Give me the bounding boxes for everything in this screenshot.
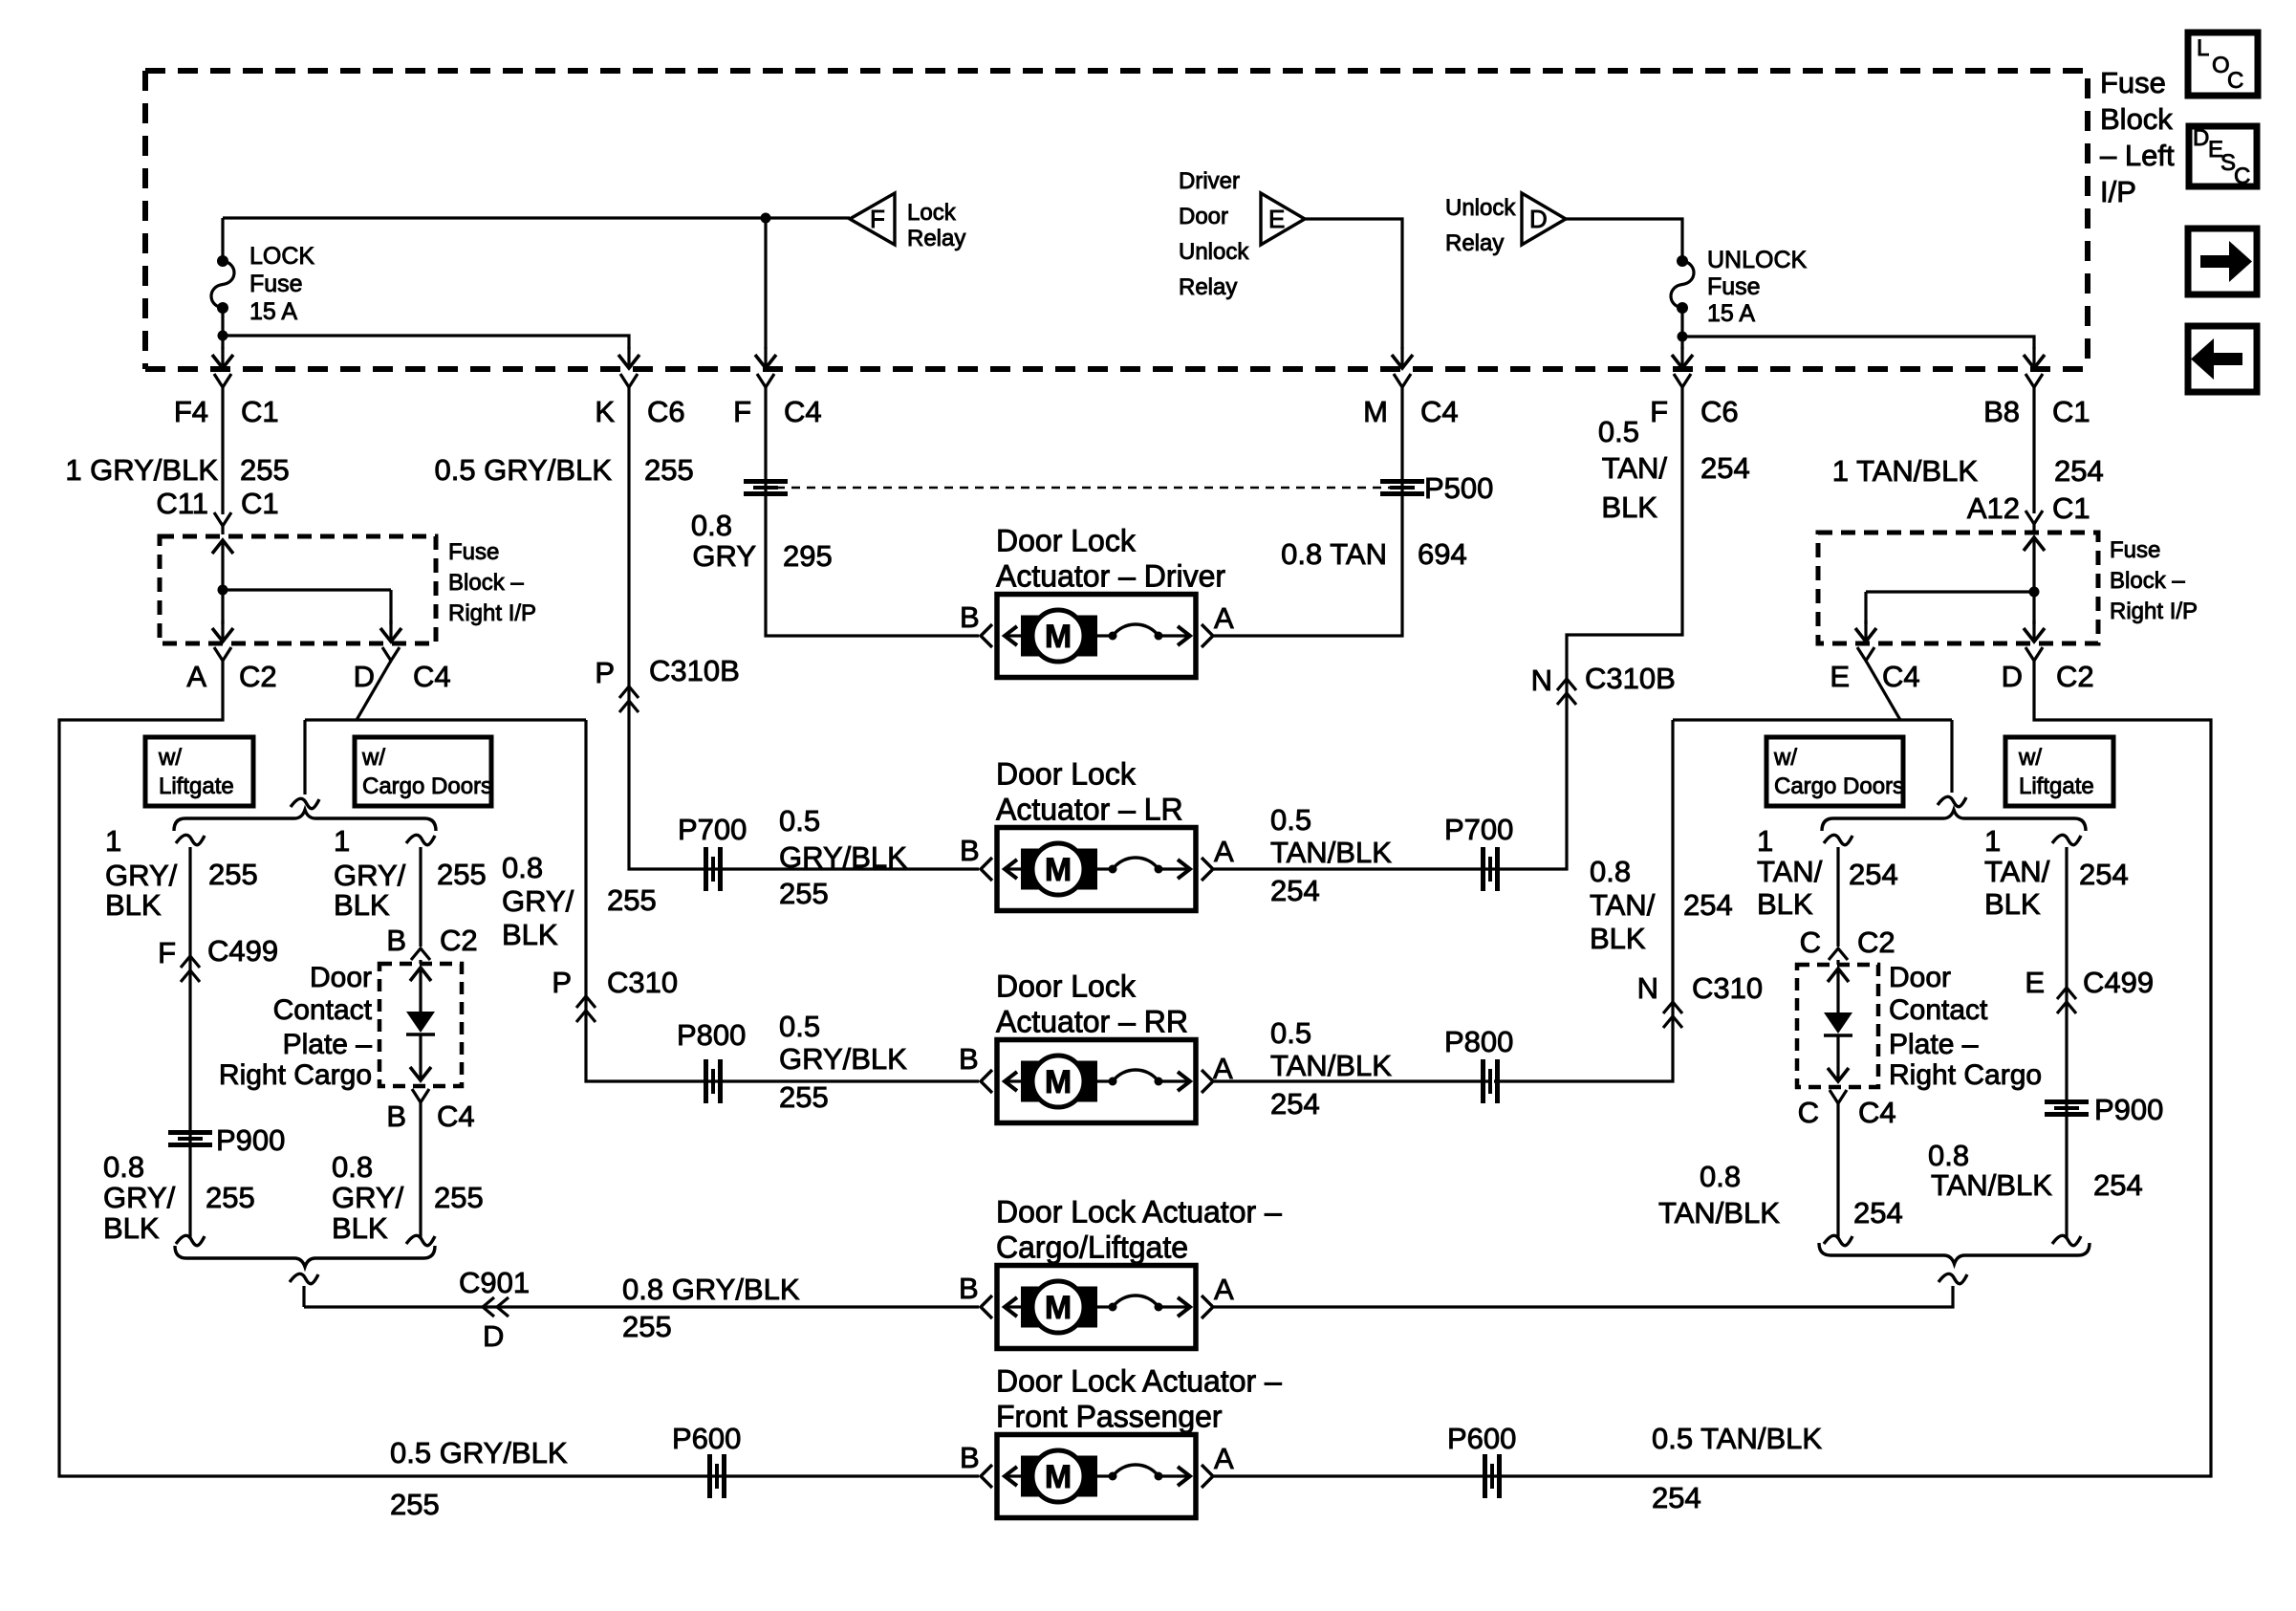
svg-text:Fuse: Fuse [448,539,499,565]
label 0.8 GRY/BLK 255 (left) [103,1150,255,1245]
svg-text:Right Cargo: Right Cargo [219,1059,372,1091]
svg-text:w/: w/ [158,745,182,771]
connector F C6 [1650,374,1739,428]
svg-text:GRY/BLK: GRY/BLK [779,1042,907,1076]
svg-text:GRY/: GRY/ [103,1181,176,1214]
svg-text:0.8: 0.8 [1700,1160,1741,1193]
svg-text:GRY/: GRY/ [502,884,574,918]
svg-text:Driver: Driver [1179,168,1240,194]
connector B8 C1 [1983,374,2090,428]
svg-text:Actuator – Driver: Actuator – Driver [996,559,1225,594]
svg-text:C310: C310 [607,966,678,999]
connector F4 C1 [174,374,279,428]
connector B C4 [386,1089,474,1133]
svg-text:0.5: 0.5 [1270,803,1311,837]
svg-text:C901: C901 [459,1266,530,1299]
svg-text:0.8: 0.8 [103,1150,144,1184]
break squiggle above left brace [291,720,319,809]
svg-text:Fuse: Fuse [2100,66,2166,99]
wire to cargo/liftgate actuator B with C901 [304,1305,979,1308]
svg-text:254: 254 [2093,1168,2143,1202]
wire P800 right to RR A [1214,1079,1488,1082]
svg-text:0.8: 0.8 [1590,855,1631,888]
svg-text:0.5 TAN/BLK: 0.5 TAN/BLK [1652,1422,1822,1455]
svg-text:254: 254 [2054,454,2104,488]
wire: fuse branch to K pin [223,336,639,368]
break squiggle above right brace [1938,720,1966,807]
svg-text:Lock: Lock [907,200,957,226]
door lock actuator LR [981,757,1213,911]
svg-text:254: 254 [2079,858,2129,891]
svg-text:295: 295 [783,539,833,573]
svg-text:Right Cargo: Right Cargo [1889,1059,2042,1091]
svg-text:P900: P900 [2094,1093,2163,1126]
svg-text:Fuse: Fuse [2110,537,2160,563]
junction below UNLOCK fuse [1678,332,1688,342]
fuse block right I/P (left) label [448,539,536,626]
svg-text:C499: C499 [207,934,278,968]
wire E C4 slant [1866,661,1900,720]
svg-text:N: N [1531,664,1552,697]
svg-text:C1: C1 [2052,491,2090,525]
door contact plate (left) internals [406,960,435,1080]
label 0.5 TAN/BLK 254 (F C6) [1598,415,1750,524]
wire E branch horizontal [1673,718,1952,721]
label 0.8 TAN/BLK 254 (liftgate right) [1928,1139,2143,1202]
svg-text:Cargo Doors: Cargo Doors [362,773,492,799]
svg-text:TAN/BLK: TAN/BLK [1270,1049,1392,1082]
svg-text:B: B [960,600,980,634]
connector C11 C1 [156,487,278,526]
svg-text:Right I/P: Right I/P [448,600,536,626]
label 0.8 TAN 694 [1281,537,1467,571]
wire: fuse to F C6 pin [1672,337,1693,368]
right arrow nav box [2188,229,2257,294]
svg-text:TAN/BLK: TAN/BLK [1270,836,1392,869]
P500 dashed pair line [776,487,1391,490]
wire: lock relay down to F C4 [755,218,776,368]
svg-text:Fuse: Fuse [249,271,303,297]
fuse block right I/P (right) dashed outline [1818,533,2098,643]
unlock relay D triangle [1445,193,1566,256]
label 0.5 GRY/BLK 255 (FP B) [390,1436,568,1521]
svg-text:C2: C2 [440,924,478,957]
svg-text:GRY/: GRY/ [105,859,178,892]
wire P600 to FP B [719,1474,979,1477]
LOC reference box [2188,33,2258,96]
wire P700 to LR B [715,867,979,870]
label 1 TAN/BLK 254 (liftgate right) [1984,824,2129,921]
svg-text:D: D [354,660,375,693]
svg-text:C4: C4 [437,1099,475,1133]
pin A LR [1214,835,1234,868]
svg-text:1 TAN/BLK: 1 TAN/BLK [1832,454,1979,488]
wire cargo/liftgate A to right brace [1214,1274,1967,1307]
wire P800 to RR B [715,1079,979,1082]
svg-text:UNLOCK: UNLOCK [1707,247,1808,273]
svg-text:GRY/BLK: GRY/BLK [779,840,907,874]
svg-text:Door: Door [1179,204,1228,229]
door contact plate (left) label [219,962,373,1091]
svg-text:F: F [870,205,885,233]
label 0.8 TAN/BLK 254 (N C310B) [1590,855,1733,955]
door lock actuator cargo/liftgate [981,1195,1282,1349]
svg-text:B: B [386,924,406,957]
svg-text:Liftgate: Liftgate [2019,773,2094,799]
svg-text:P: P [552,966,572,999]
svg-text:0.5: 0.5 [1270,1016,1311,1050]
svg-text:P700: P700 [1444,813,1513,846]
break squiggle below left underbrace [290,1274,318,1307]
svg-text:P900: P900 [216,1123,285,1157]
svg-text:Door Lock Actuator –: Door Lock Actuator – [996,1195,1282,1230]
svg-text:Contact: Contact [1889,994,1988,1026]
svg-text:D: D [1529,205,1548,233]
svg-text:C: C [2227,68,2243,94]
svg-text:BLK: BLK [1984,887,2041,921]
svg-text:Block –: Block – [2110,568,2185,594]
svg-text:D: D [2002,660,2023,693]
svg-text:Block: Block [2100,102,2173,136]
wire driver A to M C4 [1214,387,1402,636]
svg-text:B: B [959,1272,979,1305]
svg-text:C310B: C310B [649,654,740,687]
svg-text:C4: C4 [1420,395,1459,428]
svg-text:255: 255 [437,858,487,891]
cargo doors branch wire (left) [406,835,435,947]
grommet P800 (left) [677,1018,746,1103]
door contact plate right cargo (left) dashed box [379,964,462,1086]
connector C901 D [459,1266,530,1353]
pin A front passenger [1214,1442,1234,1475]
connector M C4 [1363,374,1458,428]
svg-text:Right I/P: Right I/P [2110,599,2198,624]
connector P C310B [595,654,739,712]
svg-text:BLK: BLK [332,1211,388,1245]
svg-text:A: A [186,660,206,693]
svg-text:D: D [2193,125,2209,151]
svg-text:M: M [1363,395,1388,428]
svg-text:254: 254 [1700,451,1750,485]
svg-text:0.8 TAN: 0.8 TAN [1281,537,1387,571]
fuse block right I/P (left) internal wiring [212,526,401,642]
left option brace [174,810,436,831]
label 0.5 TAN/BLK 254 (FP A) [1652,1422,1822,1514]
door lock actuator front passenger [981,1364,1282,1518]
liftgate branch wire (right) [2052,835,2081,1245]
svg-text:B: B [386,1099,406,1133]
svg-text:P700: P700 [678,813,747,846]
label 255 (C310) [502,851,657,951]
svg-text:694: 694 [1418,537,1467,571]
svg-text:Plate –: Plate – [283,1029,373,1060]
svg-text:w/: w/ [2018,745,2042,771]
fuse block right I/P (left) dashed outline [160,536,436,643]
svg-text:– Left: – Left [2100,139,2175,172]
svg-text:B: B [960,834,980,867]
svg-text:C4: C4 [1882,660,1920,693]
svg-text:TAN/BLK: TAN/BLK [1658,1196,1780,1230]
fuse block right I/P (right) internal wiring [1855,524,2045,642]
svg-text:Block –: Block – [448,570,524,596]
svg-text:BLK: BLK [1590,922,1646,955]
grommet P900 (left) [168,1123,285,1157]
svg-text:255: 255 [240,453,290,487]
svg-text:1: 1 [1757,824,1773,858]
DESC reference box [2189,125,2257,189]
svg-text:M: M [1045,852,1072,888]
svg-text:P600: P600 [1447,1422,1516,1455]
door contact plate (right) internals [1824,960,1852,1081]
fuse block left I/P dashed outline [145,71,2088,369]
svg-text:BLK: BLK [502,918,558,951]
svg-text:P800: P800 [677,1018,746,1052]
label 0.8 TAN/BLK 254 (cargo right) [1658,1160,1903,1230]
wire P700 right to F C6 [1492,387,1682,869]
label 0.8 GRY/BLK 255 (cargo left) [332,1150,484,1245]
svg-text:B8: B8 [1983,395,2020,428]
svg-text:0.8: 0.8 [691,509,732,542]
liftgate branch wire (left) [176,835,205,1245]
door contact plate right cargo (right) dashed box [1797,965,1878,1087]
connector B C2 [386,924,477,960]
svg-text:BLK: BLK [334,888,390,922]
svg-text:C310: C310 [1692,971,1763,1005]
cargo branch lower wire (right) [1824,1103,1852,1246]
svg-text:M: M [1045,1290,1072,1326]
svg-text:1: 1 [105,824,121,858]
svg-text:M: M [1045,1459,1072,1495]
label 0.5 TAN/BLK 254 (RR A) [1270,1016,1392,1121]
pin A cargo/liftgate [1214,1273,1234,1306]
label 0.5 GRY/BLK 255 (RR B) [779,1010,907,1114]
wire K C6 down to LR branch [629,387,711,869]
svg-text:Actuator – LR: Actuator – LR [996,793,1183,827]
svg-text:15 A: 15 A [1707,300,1755,327]
wire: battery feed to lock relay [223,216,850,219]
label 1 GRY/BLK 255 (cargo left) [334,824,487,922]
svg-text:C: C [1800,925,1821,959]
junction node at lock relay feed [761,213,771,224]
svg-text:255: 255 [607,883,657,917]
connector N C310B [1531,662,1676,705]
svg-text:1: 1 [334,824,350,858]
svg-text:F: F [1650,395,1668,428]
svg-text:255: 255 [434,1181,484,1214]
svg-text:C1: C1 [241,395,279,428]
door contact plate (right) label [1889,962,2042,1091]
svg-text:C: C [2234,163,2250,189]
connector E C499 [2025,966,2154,1013]
wire D branch horizontal [305,718,586,721]
driver door unlock relay E triangle [1179,168,1305,300]
svg-text:C6: C6 [647,395,685,428]
svg-text:Door Lock Actuator –: Door Lock Actuator – [996,1364,1282,1399]
wire D branch down to RR B [586,720,711,1081]
pin B driver [960,600,980,634]
left underbrace [175,1246,435,1267]
connector C C4 [1798,1090,1896,1129]
svg-text:BLK: BLK [1757,887,1813,921]
pin B LR [960,834,980,867]
wire A C2 to left rail [59,661,715,1476]
label 1 GRY/BLK 255 (liftgate left) [105,824,258,922]
svg-text:0.8 GRY/BLK: 0.8 GRY/BLK [622,1273,800,1306]
door lock actuator RR [981,969,1213,1123]
svg-text:Unlock: Unlock [1179,239,1249,265]
svg-text:0.5 GRY/BLK: 0.5 GRY/BLK [390,1436,568,1469]
svg-text:A: A [1214,601,1234,635]
svg-text:GRY/: GRY/ [334,859,406,892]
label 0.5 TAN/BLK 254 (LR A) [1270,803,1392,907]
wire P600 right to right rail [1494,661,2211,1476]
connector A C2 [186,647,276,693]
svg-text:C4: C4 [1858,1096,1896,1129]
label 0.8 GRY/BLK 255 (C901) [622,1273,800,1343]
svg-text:P500: P500 [1424,471,1493,505]
svg-text:Actuator – RR: Actuator – RR [996,1005,1188,1039]
svg-text:Fuse: Fuse [1707,273,1761,300]
svg-text:C1: C1 [2052,395,2090,428]
svg-text:A: A [1214,835,1234,868]
svg-text:Liftgate: Liftgate [159,773,234,799]
grommet on F C4 wire [744,482,788,494]
svg-text:Cargo/Liftgate: Cargo/Liftgate [996,1230,1188,1265]
svg-text:B: B [960,1441,980,1474]
svg-text:Front Passenger: Front Passenger [996,1400,1223,1434]
svg-text:BLK: BLK [103,1211,160,1245]
label 0.8 GRY 295 [691,509,833,573]
svg-text:C11: C11 [156,487,208,520]
svg-text:F: F [158,936,176,969]
svg-text:A: A [1214,1273,1234,1306]
fuse block right I/P (right) label [2110,537,2198,624]
svg-text:C1: C1 [241,487,279,520]
svg-text:254: 254 [1270,874,1320,907]
svg-text:254: 254 [1270,1087,1320,1121]
svg-text:0.8: 0.8 [1928,1139,1969,1172]
svg-text:BLK: BLK [105,888,162,922]
grommet P700 (left) [678,813,747,891]
right underbrace [1819,1243,2090,1264]
svg-text:0.5 GRY/BLK: 0.5 GRY/BLK [434,453,612,487]
svg-text:TAN/: TAN/ [1757,855,1823,888]
svg-text:C2: C2 [239,660,277,693]
svg-text:P800: P800 [1444,1025,1513,1058]
LOCK fuse 15A [211,218,234,336]
svg-text:255: 255 [206,1181,255,1214]
cargo branch lower wire (left) [406,1102,435,1246]
connector C C2 [1800,925,1895,960]
lock relay F triangle [850,193,965,251]
wire D C4 slant [357,661,391,720]
svg-text:254: 254 [1652,1481,1701,1514]
svg-text:A: A [1213,1052,1233,1085]
svg-text:F4: F4 [174,395,208,428]
svg-text:0.8: 0.8 [332,1150,373,1184]
svg-text:C310B: C310B [1585,662,1676,695]
svg-text:Door: Door [310,962,372,993]
svg-text:Door: Door [1889,962,1951,993]
door lock actuator driver [981,524,1225,678]
w/ Cargo Doors option box (left) [355,737,492,806]
svg-text:A12: A12 [1967,491,2020,525]
cargo doors branch wire (right) [1824,835,1852,947]
svg-text:Contact: Contact [273,994,373,1026]
svg-text:TAN/: TAN/ [1602,451,1668,485]
svg-text:Door Lock: Door Lock [996,757,1137,792]
fuse block left I/P label [2100,66,2175,208]
label 0.5 GRY/BLK 255 (LR B) [779,804,907,910]
connector D C4 [354,647,451,693]
connector F C499 [158,934,278,982]
svg-text:0.5: 0.5 [779,804,820,838]
grommet P900 (right) [2045,1093,2163,1126]
svg-text:w/: w/ [1773,745,1797,771]
w/ Liftgate option box (right) [2005,737,2113,806]
svg-text:0.5: 0.5 [1598,415,1639,448]
svg-text:254: 254 [1853,1196,1903,1230]
svg-text:GRY/: GRY/ [332,1181,404,1214]
wire LR A to P700 right [1214,867,1488,870]
svg-text:F: F [733,395,751,428]
label 1 TAN/BLK 254 [1832,454,2104,488]
connector K C6 [595,374,684,428]
svg-text:I/P: I/P [2100,175,2136,208]
svg-text:1: 1 [1984,824,2001,858]
svg-text:P: P [595,656,615,689]
svg-text:Cargo Doors: Cargo Doors [1774,773,1904,799]
junction below LOCK fuse [218,331,228,341]
label 1 TAN/BLK 254 (cargo right) [1757,824,1898,921]
wire F C4 to driver actuator B [766,387,979,636]
svg-text:D: D [483,1319,504,1353]
svg-text:BLK: BLK [1601,490,1657,524]
LOCK fuse label [249,243,314,325]
svg-text:Unlock: Unlock [1445,195,1516,221]
svg-text:LOCK: LOCK [249,243,314,270]
svg-text:C: C [1798,1096,1819,1129]
svg-text:15 A: 15 A [249,298,297,325]
right option brace [1822,810,2086,831]
UNLOCK fuse 15A [1671,255,1694,337]
svg-text:254: 254 [1683,888,1733,922]
svg-text:255: 255 [644,453,694,487]
grommet P500 [1380,471,1493,505]
wire: D relay to UNLOCK fuse [1566,219,1682,261]
svg-text:1 GRY/BLK: 1 GRY/BLK [65,453,218,487]
wire: fuse to F4 pin [212,336,233,368]
w/ Liftgate option box (left) [145,737,253,806]
label 0.5 GRY/BLK 255 [434,453,693,487]
wire: E relay to M C4 [1305,219,1413,368]
svg-text:M: M [1045,619,1072,655]
svg-text:C499: C499 [2083,966,2154,999]
grommet P800 (right) [1444,1025,1513,1103]
wire FP A to right rail [1214,1474,1490,1477]
svg-text:Plate –: Plate – [1889,1029,1979,1060]
pin A RR [1213,1052,1233,1085]
svg-text:C4: C4 [784,395,822,428]
svg-text:N: N [1637,971,1658,1005]
svg-text:Door Lock: Door Lock [996,524,1137,558]
connector A12 C1 [1967,491,2090,525]
connector D C2 [2002,647,2094,693]
svg-text:E: E [2025,966,2045,999]
label 1 GRY/BLK 255 [65,453,289,487]
svg-text:255: 255 [390,1488,440,1521]
svg-text:C4: C4 [413,660,451,693]
